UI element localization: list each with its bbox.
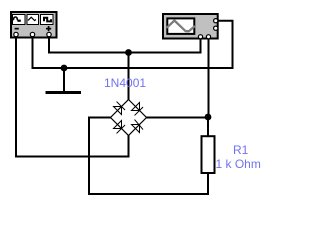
scope trace [167,21,194,32]
square button [41,15,54,25]
svg-text:R1: R1 [233,143,249,157]
terminal common [30,32,34,36]
wire: scope channel B down to output node [208,39,210,117]
sine button [13,15,26,25]
node: ground junction dot [61,65,68,72]
ground [46,68,82,94]
terminal minus [14,32,18,36]
node: junction dot at bridge top branch [125,49,132,56]
diode top-left (anode left vertex, cathode top vertex) [114,102,126,115]
svg-text:1 k Ohm: 1 k Ohm [216,157,261,171]
wire: R1 bottom to bridge left vertex [89,118,208,195]
wire: junction down to bridge top vertex [128,53,130,101]
minus label [15,28,19,30]
diode bottom-left (anode left vertex, cathode bottom vertex) [114,121,126,134]
function generator instrument [11,12,57,38]
diode bridge D1 1N4001: diamond outline [111,100,147,136]
node: output junction dot [205,114,212,121]
wire: FG plus terminal to scope channel A [49,37,201,53]
terminal T [214,26,218,30]
wire: FG minus terminal to bridge bottom vertex [16,37,129,157]
terminal B [206,35,210,39]
plus label [46,28,51,30]
wire: FG common terminal ground bus to scope G terminal [33,21,233,68]
terminal G [214,19,218,23]
wire: bridge right vertex to output node [147,117,209,119]
oscilloscope instrument [163,14,218,39]
terminal A [198,35,202,39]
scope screen [167,18,194,34]
terminal plus [47,32,51,36]
svg-text:1N4001: 1N4001 [104,76,146,90]
triangle button [27,15,39,25]
diode top-right (anode top vertex, cathode right vertex) [132,103,144,116]
resistor R1 [202,136,215,173]
wire: output node to R1 top [207,117,209,137]
diode bottom-right (anode bottom vertex, cathode right vertex) [132,120,144,133]
